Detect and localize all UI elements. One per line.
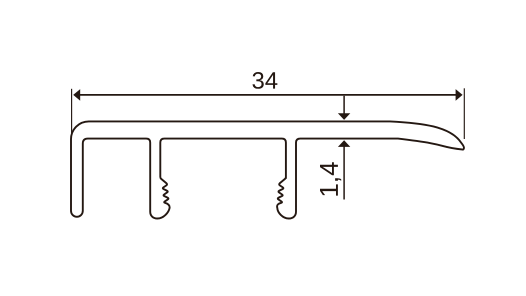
dimension line 34 bbox=[75, 94, 461, 96]
extension line left bbox=[71, 89, 73, 133]
extension line right bbox=[463, 88, 465, 139]
arrowhead right bbox=[456, 89, 463, 101]
dimension text 34 bbox=[252, 72, 277, 89]
dimension text 1,4 bbox=[320, 162, 341, 195]
thickness arrow up bbox=[338, 140, 350, 199]
thickness arrow down bbox=[338, 96, 350, 120]
profile cross-section outline bbox=[71, 121, 464, 218]
arrowhead left bbox=[73, 89, 80, 101]
